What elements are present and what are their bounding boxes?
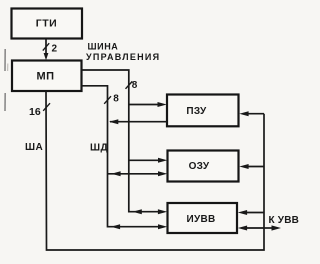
svg-text:ПЗУ: ПЗУ bbox=[186, 106, 207, 117]
svg-text:МП: МП bbox=[36, 71, 54, 83]
svg-text:ШД: ШД bbox=[90, 142, 108, 153]
svg-text:ШИНА: ШИНА bbox=[88, 42, 119, 52]
svg-text:УПРАВЛЕНИЯ: УПРАВЛЕНИЯ bbox=[86, 52, 160, 62]
svg-text:ГТИ: ГТИ bbox=[36, 17, 57, 29]
svg-text:8: 8 bbox=[113, 94, 119, 105]
svg-text:ОЗУ: ОЗУ bbox=[189, 161, 210, 172]
svg-text:ИУВВ: ИУВВ bbox=[186, 214, 215, 225]
svg-text:16: 16 bbox=[29, 106, 41, 118]
svg-text:К УВВ: К УВВ bbox=[269, 215, 300, 226]
svg-text:8: 8 bbox=[132, 80, 138, 91]
svg-text:2: 2 bbox=[52, 43, 58, 54]
svg-text:ША: ША bbox=[25, 142, 43, 153]
